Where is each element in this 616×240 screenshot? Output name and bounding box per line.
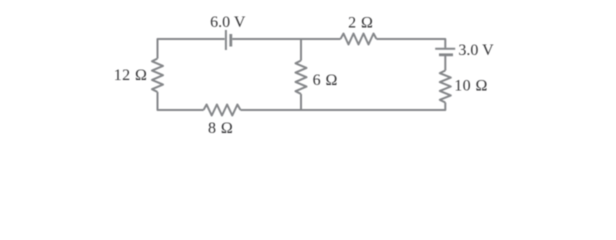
svg-text:2 Ω: 2 Ω xyxy=(348,14,373,31)
svg-text:10 Ω: 10 Ω xyxy=(454,77,488,94)
svg-text:6 Ω: 6 Ω xyxy=(313,72,338,89)
svg-text:6.0 V: 6.0 V xyxy=(210,14,246,31)
svg-text:8 Ω: 8 Ω xyxy=(208,120,233,137)
svg-text:12 Ω: 12 Ω xyxy=(114,67,148,84)
svg-text:3.0 V: 3.0 V xyxy=(458,42,494,59)
